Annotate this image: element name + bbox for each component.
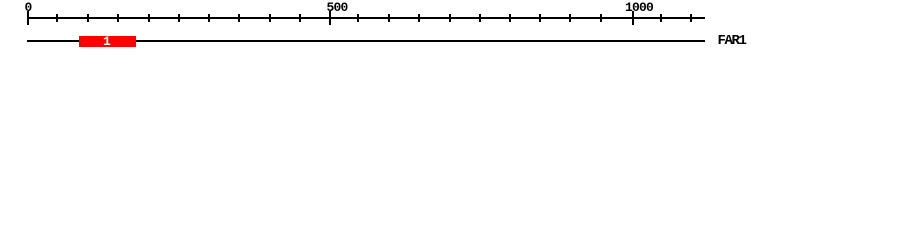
minor tick 250 (178, 14, 180, 22)
gene name label FAR1 (717, 34, 745, 48)
minor tick 550 (357, 14, 359, 22)
minor tick 300 (208, 14, 210, 22)
ruler baseline (0..~1120) (27, 17, 705, 19)
minor tick 1100 (690, 14, 692, 22)
major tick 500 (329, 11, 331, 25)
minor tick 50 (56, 14, 58, 22)
minor tick 200 (148, 14, 150, 22)
major tick 1000 (632, 11, 634, 25)
minor tick 800 (509, 14, 511, 22)
feature line (gene FAR1 span) (27, 40, 705, 42)
minor tick 400 (269, 14, 271, 22)
minor tick 450 (299, 14, 301, 22)
scale label 0 (24, 1, 31, 14)
minor tick 900 (569, 14, 571, 22)
minor tick 600 (388, 14, 390, 22)
minor tick 650 (418, 14, 420, 22)
minor tick 700 (449, 14, 451, 22)
minor tick 100 (87, 14, 89, 22)
minor tick 350 (238, 14, 240, 22)
minor tick 750 (479, 14, 481, 22)
minor tick 950 (600, 14, 602, 22)
scale label 500 (326, 1, 347, 14)
exon box 1 (red) (79, 36, 136, 47)
exon number label 1 (103, 35, 110, 48)
scale label 1000 (625, 1, 653, 14)
minor tick 150 (117, 14, 119, 22)
minor tick 850 (539, 14, 541, 22)
minor tick 1050 (660, 14, 662, 22)
major tick 0 (27, 11, 29, 25)
